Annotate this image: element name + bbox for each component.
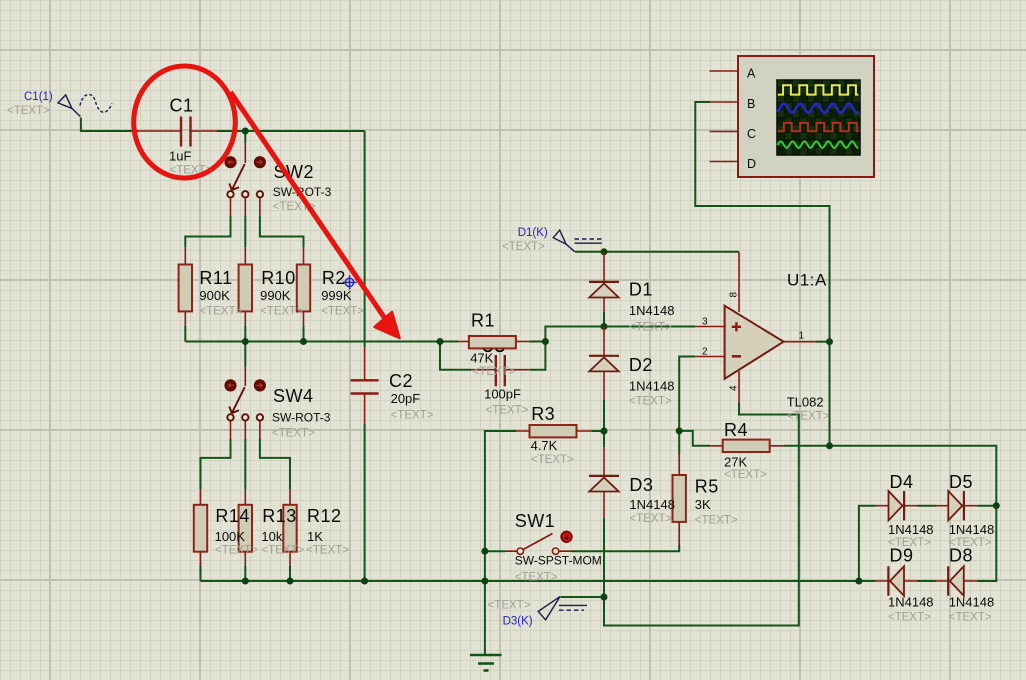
- label D5 1N4148: [949, 522, 995, 537]
- waveform C red: [778, 123, 859, 131]
- oscilloscope body: [738, 56, 874, 177]
- label C1 TEXT: [170, 165, 213, 177]
- svg-text:<TEXT>: <TEXT>: [473, 366, 516, 378]
- label R5 TEXT: [695, 515, 738, 527]
- label R5: [695, 477, 719, 497]
- svg-text:C2: C2: [389, 371, 413, 391]
- svg-text:100K: 100K: [215, 529, 246, 544]
- label D1 1N4148: [629, 303, 675, 318]
- svg-text:<TEXT>: <TEXT>: [629, 322, 672, 334]
- label D9 1N4148: [888, 595, 934, 610]
- opamp pin4 lead: [738, 371, 740, 403]
- wire output node down to R4 row: [829, 342, 831, 446]
- annotation red arrow: [231, 92, 400, 338]
- wire D8 to right column: [978, 506, 997, 581]
- label D4 TEXT: [888, 537, 931, 549]
- wire C2 bottom: [364, 424, 366, 581]
- label SW1 TEXT: [515, 572, 558, 584]
- svg-text:<TEXT>: <TEXT>: [261, 545, 304, 557]
- svg-text:<TEXT>: <TEXT>: [629, 513, 672, 525]
- wire R13 bottom: [244, 566, 246, 581]
- label 100pF TEXT: [486, 405, 529, 417]
- scope channel letters: [747, 67, 756, 172]
- label 1K: [307, 529, 323, 544]
- svg-text:<TEXT>: <TEXT>: [199, 306, 242, 318]
- terminal D1(K): [553, 230, 602, 252]
- svg-text:D5: D5: [949, 472, 973, 492]
- R3 leads: [516, 430, 592, 432]
- svg-text:<TEXT>: <TEXT>: [272, 428, 315, 440]
- label U1 TEXT: [787, 411, 830, 423]
- svg-text:R2: R2: [322, 268, 346, 288]
- svg-text:990K: 990K: [260, 288, 291, 303]
- label D1(K): [518, 227, 548, 239]
- svg-text:<TEXT>: <TEXT>: [949, 612, 992, 624]
- svg-text:3: 3: [702, 317, 708, 328]
- wire SW2 throw2 to R10: [244, 216, 246, 247]
- label D1: [629, 279, 653, 299]
- resistor R13: [239, 505, 252, 552]
- svg-text:R11: R11: [199, 268, 232, 288]
- wire R2 bottom: [303, 326, 305, 342]
- wire D9 D8 mid link: [917, 580, 936, 582]
- svg-text:2: 2: [702, 347, 708, 358]
- label D5 TEXT: [949, 537, 992, 549]
- wire D9 left link: [859, 580, 876, 582]
- label R2 TEXT: [321, 306, 364, 318]
- scope pin D: [710, 161, 739, 163]
- label 900K: [199, 288, 230, 303]
- wire mid rail: [185, 341, 440, 343]
- switch SW2: [225, 157, 266, 198]
- svg-text:R13: R13: [262, 506, 297, 526]
- label R14 TEXT: [215, 545, 258, 557]
- SW2 throw leads: [231, 198, 260, 216]
- opamp pin1 lead: [784, 341, 816, 343]
- svg-text:<TEXT>: <TEXT>: [391, 410, 434, 422]
- svg-text:1N4148: 1N4148: [629, 497, 675, 512]
- svg-text:R3: R3: [531, 404, 555, 424]
- label C2: [389, 371, 413, 391]
- svg-text:10k: 10k: [261, 529, 282, 544]
- svg-text:1N4148: 1N4148: [949, 595, 995, 610]
- label D5: [949, 472, 973, 492]
- label R12: [307, 506, 342, 526]
- wire D5 to right column: [978, 505, 997, 507]
- opamp pin2 lead: [695, 356, 725, 358]
- svg-text:D1(K): D1(K): [518, 227, 548, 239]
- hidden cap ref glyph bottoms: [484, 349, 504, 351]
- diode D2: [589, 356, 619, 372]
- wire D3 top lead: [603, 431, 605, 447]
- waveform B blue: [778, 104, 859, 113]
- resistor R1: [469, 336, 516, 348]
- svg-text:R5: R5: [695, 477, 719, 497]
- waveform A yellow: [778, 85, 859, 94]
- pin number 2: [702, 347, 708, 358]
- svg-text:1N4148: 1N4148: [888, 522, 934, 537]
- label SW2 TEXT: [273, 201, 316, 213]
- label U1:A: [787, 271, 827, 290]
- svg-text:<TEXT>: <TEXT>: [629, 396, 672, 408]
- wire SW2 throw1 to R11: [185, 216, 230, 247]
- label R1: [471, 311, 495, 331]
- wire SW4 pole from mid rail: [244, 342, 246, 367]
- svg-text:1N4148: 1N4148: [629, 303, 675, 318]
- SW4 pole lead: [244, 367, 246, 387]
- D5 leads: [936, 505, 978, 507]
- wire SW1 right to R5 bottom: [572, 545, 679, 551]
- terminal D3(K): [538, 597, 587, 620]
- label 999K: [321, 288, 352, 303]
- svg-text:<TEXT>: <TEXT>: [321, 306, 364, 318]
- svg-text:R12: R12: [307, 506, 342, 526]
- SW1 red marker: [561, 531, 572, 542]
- label R13: [262, 506, 297, 526]
- wire R10 bottom: [244, 326, 246, 342]
- label R3: [531, 404, 555, 424]
- label 47K: [470, 351, 493, 366]
- svg-text:D9: D9: [890, 546, 914, 566]
- wire D2 bottom to R3 node: [603, 400, 605, 431]
- R5 leads: [678, 454, 680, 545]
- svg-text:1N4148: 1N4148: [949, 522, 995, 537]
- pin number 4: [728, 385, 739, 391]
- resistor R2: [297, 265, 310, 312]
- svg-text:999K: 999K: [321, 288, 352, 303]
- label D2: [629, 355, 653, 375]
- wire 100pF parallel branch left: [440, 342, 471, 370]
- D4 leads: [876, 505, 917, 507]
- wire SW2 pole stub: [244, 131, 246, 143]
- svg-text:<TEXT>: <TEXT>: [260, 306, 303, 318]
- svg-text:1uF: 1uF: [169, 149, 191, 164]
- svg-text:R4: R4: [724, 420, 748, 440]
- svg-text:R1: R1: [471, 311, 495, 331]
- scope pin B: [710, 101, 738, 103]
- wire R12 bottom: [289, 566, 291, 581]
- R10 leads: [244, 247, 246, 326]
- label SW4 TEXT: [272, 428, 315, 440]
- wire node up to pin2: [679, 357, 695, 431]
- svg-text:B: B: [747, 97, 755, 111]
- wire SW4 throw2 to R13: [244, 439, 246, 489]
- D2 leads: [603, 327, 605, 401]
- svg-text:<TEXT>: <TEXT>: [515, 572, 558, 584]
- wire 100pF parallel branch right: [530, 342, 546, 370]
- svg-text:<TEXT>: <TEXT>: [488, 600, 531, 612]
- label D9: [890, 546, 914, 566]
- C1 leads: [138, 130, 217, 132]
- wire R14 bottom to bottom rail: [200, 566, 202, 581]
- svg-text:<TEXT>: <TEXT>: [531, 454, 574, 466]
- label SW1: [515, 511, 556, 531]
- waveform D green: [778, 141, 859, 148]
- wire SW1 left: [485, 550, 505, 552]
- R13 leads: [244, 489, 246, 566]
- wire R1 right node: [530, 341, 546, 343]
- D9 leads: [876, 580, 917, 582]
- label 100pF: [484, 387, 521, 402]
- svg-text:D3(K): D3(K): [503, 616, 533, 628]
- wire SW2 throw3 to R2: [260, 216, 304, 247]
- pin number 8: [728, 292, 739, 298]
- label R11: [199, 268, 232, 288]
- SW2 pole lead: [244, 143, 246, 164]
- label R13 TEXT: [261, 545, 304, 557]
- pin number 1: [799, 331, 805, 342]
- ground: [470, 655, 502, 671]
- label D9 TEXT: [888, 612, 931, 624]
- svg-text:<TEXT>: <TEXT>: [306, 545, 349, 557]
- wire R1 node up to pin3 row: [545, 327, 695, 342]
- svg-text:4.7K: 4.7K: [531, 438, 558, 453]
- D1 leads: [603, 252, 605, 312]
- wire node to R4 left: [679, 431, 710, 446]
- input terminal C1(1): [58, 94, 112, 116]
- label R14: [215, 506, 250, 526]
- capacitor C2: [351, 380, 379, 393]
- wire D3 bottom to D3K node: [603, 518, 605, 597]
- wire C1 to top node: [217, 130, 365, 132]
- svg-text:4: 4: [728, 385, 739, 391]
- switch SW4: [225, 380, 266, 421]
- R4 leads: [710, 445, 784, 447]
- wire output node up to scope B: [695, 102, 829, 342]
- label D8 TEXT: [949, 612, 992, 624]
- svg-text:C: C: [747, 127, 756, 141]
- label R11 TEXT: [199, 306, 242, 318]
- wire pin4 to D3K node: [604, 403, 799, 626]
- wire top diode node to pin8 corner: [604, 251, 739, 253]
- scope pin C: [710, 131, 739, 133]
- wire D4 D5 mid link: [917, 505, 936, 507]
- svg-text:<TEXT>: <TEXT>: [787, 411, 830, 423]
- label 10k: [261, 529, 282, 544]
- label SW-ROT-3: [273, 185, 332, 199]
- label 100K: [215, 529, 246, 544]
- wire R3 right to node: [592, 430, 605, 432]
- svg-text:<TEXT>: <TEXT>: [888, 612, 931, 624]
- capacitor C1: [181, 117, 191, 147]
- label C1(1): [24, 91, 53, 103]
- resistor R11: [179, 265, 192, 312]
- diode D4: [889, 491, 905, 520]
- label R3 TEXT: [531, 454, 574, 466]
- svg-text:SW1: SW1: [515, 511, 556, 531]
- label C1(1) TEXT: [7, 105, 50, 117]
- wire bridge left riser: [859, 506, 876, 581]
- wire D1 bottom to node: [603, 312, 605, 327]
- diode D1: [589, 282, 619, 298]
- label R10 TEXT: [260, 306, 303, 318]
- svg-text:<TEXT>: <TEXT>: [724, 469, 767, 481]
- svg-text:SW-SPST-MOM: SW-SPST-MOM: [515, 554, 602, 568]
- svg-text:20pF: 20pF: [391, 391, 421, 406]
- wire D1K terminal to top diode node: [575, 251, 604, 253]
- oscilloscope screen: [777, 80, 860, 155]
- wire R11 bottom to mid rail: [184, 326, 186, 342]
- svg-text:C1: C1: [170, 96, 194, 116]
- svg-text:D4: D4: [890, 472, 914, 492]
- svg-text:SW4: SW4: [273, 386, 314, 406]
- wire SW4 throw1 to R14: [201, 439, 231, 489]
- wire R1 left node: [440, 341, 458, 343]
- R14 leads: [200, 489, 202, 566]
- SW4 throw leads: [231, 421, 260, 439]
- label R1 TEXT: [473, 366, 516, 378]
- resistor R12: [283, 505, 296, 552]
- R11 leads: [184, 247, 186, 326]
- label C1: [170, 96, 194, 116]
- svg-text:1K: 1K: [307, 529, 323, 544]
- svg-text:R14: R14: [215, 506, 250, 526]
- D8 leads: [936, 580, 978, 582]
- svg-text:TL082: TL082: [787, 394, 824, 409]
- diode D3: [589, 476, 619, 492]
- svg-text:<TEXT>: <TEXT>: [215, 545, 258, 557]
- label TL082: [787, 394, 824, 409]
- label SW-SPST-MOM: [515, 554, 602, 568]
- label R4: [724, 420, 748, 440]
- svg-text:D8: D8: [949, 546, 973, 566]
- label D3 TEXT: [629, 513, 672, 525]
- opamp pin3 lead: [695, 326, 725, 328]
- svg-text:1N4148: 1N4148: [888, 595, 934, 610]
- svg-text:47K: 47K: [470, 351, 493, 366]
- opamp pin8 lead: [738, 252, 740, 312]
- D3 leads: [603, 447, 605, 518]
- svg-text:D1: D1: [629, 279, 653, 299]
- op-amp U1: [725, 306, 784, 379]
- label D2 1N4148: [629, 379, 675, 394]
- label 27K: [724, 455, 747, 470]
- wire R4 right to output column: [784, 445, 996, 448]
- wire SW4 throw3 to R12: [260, 439, 290, 489]
- annotation red circle: [134, 66, 236, 178]
- resistor R10: [239, 265, 252, 312]
- label D3: [629, 475, 653, 495]
- R12 leads: [289, 489, 291, 566]
- label D3 1N4148: [629, 497, 675, 512]
- wire output column down to D5 node: [995, 446, 997, 506]
- svg-text:D3: D3: [629, 475, 653, 495]
- diode D9: [888, 566, 904, 595]
- svg-text:900K: 900K: [199, 288, 230, 303]
- capacitor 100pF: [496, 355, 505, 386]
- wire opamp out node: [816, 341, 830, 343]
- svg-text:D2: D2: [629, 355, 653, 375]
- origin marker R2: [343, 275, 357, 289]
- label D1K TEXT: [502, 241, 545, 253]
- svg-text:27K: 27K: [724, 455, 747, 470]
- wire bottom rail: [201, 580, 860, 582]
- label R2: [322, 268, 346, 288]
- resistor R5: [673, 475, 686, 522]
- svg-text:SW-ROT-3: SW-ROT-3: [272, 411, 331, 425]
- svg-text:<TEXT>: <TEXT>: [486, 405, 529, 417]
- svg-text:100pF: 100pF: [484, 387, 521, 402]
- wire input to C1: [81, 118, 138, 132]
- label 3K: [695, 497, 711, 512]
- SW1 leads: [505, 550, 572, 552]
- wire R5 top to node: [678, 431, 680, 454]
- label D2 TEXT: [629, 396, 672, 408]
- label R12 TEXT: [306, 545, 349, 557]
- label SW4: [273, 386, 314, 406]
- diode D5: [948, 491, 964, 520]
- svg-text:1: 1: [799, 331, 805, 342]
- label R4 TEXT: [724, 469, 767, 481]
- svg-text:R10: R10: [261, 268, 296, 288]
- label D8: [949, 546, 973, 566]
- label D1 TEXT: [629, 322, 672, 334]
- svg-text:U1:A: U1:A: [787, 271, 827, 290]
- label R10: [261, 268, 296, 288]
- diode D8: [948, 566, 964, 595]
- svg-text:3K: 3K: [695, 497, 711, 512]
- C2 leads: [364, 347, 366, 424]
- label SW-ROT-3 SW4: [272, 411, 331, 425]
- R1 leads: [458, 341, 530, 343]
- label 1uF: [169, 149, 191, 164]
- resistor R3: [530, 425, 577, 437]
- svg-text:<TEXT>: <TEXT>: [7, 105, 50, 117]
- label D3(K): [503, 616, 533, 628]
- resistor R4: [723, 440, 770, 452]
- svg-text:1N4148: 1N4148: [629, 379, 675, 394]
- wire D3K terminal stub: [561, 596, 605, 598]
- svg-text:<TEXT>: <TEXT>: [502, 241, 545, 253]
- wire SW1 node down to rail and ground: [484, 551, 486, 654]
- scope pin A: [710, 70, 739, 72]
- label 20pF: [391, 391, 421, 406]
- resistor R14: [194, 505, 207, 552]
- svg-text:8: 8: [728, 292, 739, 298]
- label D3K TEXT: [488, 600, 531, 612]
- pin number 3: [702, 317, 708, 328]
- label 4.7K: [531, 438, 558, 453]
- label D4 1N4148: [888, 522, 934, 537]
- label SW2: [274, 162, 315, 182]
- 100pF cap leads: [471, 369, 530, 371]
- label D4: [890, 472, 914, 492]
- svg-text:A: A: [747, 67, 756, 81]
- label 990K: [260, 288, 291, 303]
- R2 leads: [303, 247, 305, 326]
- svg-text:D: D: [747, 157, 756, 171]
- label D8 1N4148: [949, 595, 995, 610]
- svg-text:C1(1): C1(1): [24, 91, 53, 103]
- label C2 TEXT: [391, 410, 434, 422]
- switch SW1: [517, 534, 559, 555]
- wire top node down to C2: [364, 131, 366, 347]
- svg-text:<TEXT>: <TEXT>: [695, 515, 738, 527]
- wire R3 left branch: [485, 431, 516, 551]
